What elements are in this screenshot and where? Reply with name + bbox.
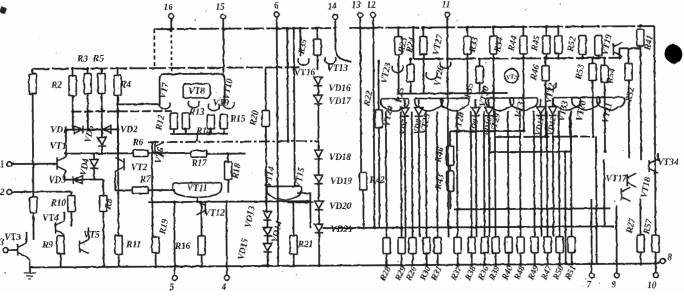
diode VD11 bbox=[537, 107, 545, 116]
wire VT3 emitter bbox=[27, 257, 30, 260]
resistor R26 bbox=[409, 238, 416, 254]
wire R46 R43 join bbox=[449, 165, 451, 171]
wire pin2 lead bbox=[12, 191, 72, 193]
wire R23 stub bbox=[397, 28, 399, 37]
resistor R27 bbox=[637, 235, 644, 252]
junction y228 x363 bbox=[362, 226, 365, 229]
resistor R45 bbox=[543, 36, 550, 54]
junction rail B x361 bbox=[359, 26, 362, 29]
junction VD row x102 bbox=[100, 128, 103, 131]
resistor VT19 res bbox=[595, 35, 602, 55]
wire R28 gnd bbox=[386, 254, 388, 265]
wire x620 seg bbox=[618, 48, 620, 57]
svg-text:R16: R16 bbox=[174, 241, 191, 251]
svg-text:R17: R17 bbox=[190, 158, 207, 168]
wire y202 seg bbox=[287, 201, 313, 203]
wire R1 top stub bbox=[32, 69, 34, 74]
wire R39 gnd bbox=[495, 253, 497, 264]
resistor R57 bbox=[652, 235, 659, 252]
transistor VT17 bbox=[627, 173, 636, 187]
junction gnd x293 bbox=[292, 264, 295, 267]
wire R10 stub bbox=[70, 192, 72, 196]
wire pin11 column bbox=[447, 17, 448, 238]
junction gnd x412 bbox=[411, 264, 414, 267]
svg-text:13: 13 bbox=[352, 0, 362, 10]
wire R33 drop bbox=[466, 54, 468, 93]
wire VD3row ext bbox=[94, 178, 103, 180]
junction rail C x118 bbox=[116, 67, 119, 70]
wire column R51 bbox=[570, 111, 573, 237]
resistor R31 bbox=[434, 237, 441, 253]
wire pin9 column bbox=[615, 205, 617, 273]
junction gnd x471 bbox=[470, 263, 473, 266]
junction rail y59 x605 bbox=[603, 56, 606, 59]
diode VD1 bbox=[74, 126, 83, 134]
wire line y210 bbox=[454, 207, 610, 210]
transistor VT30 bbox=[483, 87, 494, 94]
svg-text:VD16: VD16 bbox=[329, 83, 351, 93]
svg-text:R7: R7 bbox=[139, 174, 151, 184]
wire VD chain gaps bbox=[266, 220, 268, 227]
svg-text:5: 5 bbox=[170, 282, 175, 292]
junction y210 x534 bbox=[533, 207, 536, 210]
junction gnd x571 bbox=[570, 263, 573, 266]
svg-text:R11: R11 bbox=[125, 239, 141, 249]
junction rail y59 x547 bbox=[545, 57, 548, 60]
resistor R29 bbox=[398, 238, 405, 254]
junction gnd x484 bbox=[483, 263, 486, 266]
wire R11 bottom bbox=[118, 254, 120, 266]
junction y141 288 bbox=[286, 140, 289, 143]
transistor VT8 bbox=[188, 101, 199, 108]
junction y201 pin5 bbox=[173, 201, 176, 204]
junction gnd x201 bbox=[200, 265, 203, 268]
junction rail C x102 bbox=[100, 67, 103, 70]
junction rail y59 x448 bbox=[446, 57, 449, 60]
junction rail y59 x583 bbox=[581, 57, 584, 60]
wire R12 low bbox=[173, 129, 175, 134]
resistor R17 bbox=[191, 151, 207, 157]
svg-text:VT8: VT8 bbox=[188, 86, 205, 96]
wire column R39 bbox=[494, 111, 497, 237]
pin 12 bbox=[371, 12, 376, 17]
wire R26 gnd bbox=[412, 254, 414, 265]
wire VD4 bottom bbox=[93, 168, 95, 179]
wire mirror bottoms bbox=[170, 133, 228, 135]
wire column R48 bbox=[519, 111, 522, 237]
junction rail B x374 bbox=[372, 26, 375, 29]
transistor VT10 bbox=[223, 102, 234, 109]
transistor VT2 bbox=[115, 157, 124, 171]
resistor R53 bbox=[589, 63, 596, 80]
svg-text:VT17: VT17 bbox=[606, 173, 627, 183]
pin 5 bbox=[172, 276, 177, 281]
wire column R50 bbox=[558, 111, 561, 237]
diode VD8 bbox=[415, 108, 423, 117]
wire R34 drop bbox=[492, 54, 494, 117]
junction gnd x534 bbox=[533, 263, 536, 266]
svg-text:R21: R21 bbox=[297, 239, 313, 249]
transistor VT9 bbox=[208, 104, 219, 111]
wire R46a top bbox=[449, 131, 451, 146]
svg-text:2: 2 bbox=[0, 187, 5, 197]
resistor R54 bbox=[601, 65, 608, 82]
wire R35b bottom bbox=[479, 83, 481, 93]
svg-text:R13: R13 bbox=[188, 107, 205, 117]
svg-text:VT5: VT5 bbox=[83, 229, 100, 239]
wire R48 gnd bbox=[520, 253, 522, 264]
wire column x294 bbox=[293, 28, 296, 186]
junction gnd x508 bbox=[507, 263, 510, 266]
resistor R28 bbox=[383, 238, 390, 254]
wire mirror box bbox=[160, 74, 225, 105]
svg-text:11: 11 bbox=[442, 0, 451, 9]
wire right bus bbox=[654, 26, 655, 235]
svg-text:15: 15 bbox=[216, 2, 226, 12]
wire R44 drop bbox=[522, 54, 524, 131]
wire R45 stub bbox=[545, 27, 547, 36]
junction rail y59 x599 bbox=[597, 56, 600, 59]
junction rail A x172 bbox=[170, 28, 173, 31]
wire R2 top stub bbox=[72, 69, 74, 76]
svg-text:R5: R5 bbox=[92, 53, 104, 63]
wire R20 bottom bbox=[265, 126, 268, 211]
wire R24 drop bbox=[422, 55, 424, 94]
wire R49 gnd bbox=[534, 253, 536, 264]
resistor R10 bbox=[68, 196, 75, 212]
resistor R48 bbox=[517, 237, 524, 253]
resistor R34 bbox=[490, 36, 497, 54]
diode VD12 bbox=[549, 107, 557, 116]
transistor VT33 bbox=[553, 98, 581, 111]
wire node VD3 row bbox=[64, 179, 94, 181]
junction y228 x520 bbox=[519, 225, 522, 228]
wire node y201 bbox=[148, 200, 310, 203]
wire pin12 column bbox=[373, 17, 374, 228]
resistor R35a bbox=[314, 39, 321, 55]
wire y132 link bbox=[450, 130, 524, 132]
svg-text:VD19: VD19 bbox=[330, 176, 352, 186]
wire R9 bottom bbox=[60, 254, 62, 267]
svg-text:16: 16 bbox=[164, 2, 174, 12]
diode VD17 bbox=[314, 95, 322, 104]
junction R4-y103 bbox=[116, 103, 119, 106]
wire column R28 bbox=[385, 112, 388, 238]
resistor R25 bbox=[407, 65, 414, 82]
svg-text:12: 12 bbox=[367, 0, 377, 10]
svg-text:R2: R2 bbox=[50, 80, 62, 90]
wire x414 drop bbox=[412, 28, 414, 59]
junction gnd x318.5 bbox=[318, 264, 321, 267]
resistor R11 bbox=[115, 235, 122, 254]
junction R45 bbox=[545, 25, 548, 28]
wire R29 gnd bbox=[401, 254, 403, 265]
wire mirror to y141 bbox=[196, 134, 198, 142]
wire R18 top bbox=[227, 154, 229, 162]
junction y110b bbox=[116, 110, 119, 113]
wire column x288 bbox=[286, 28, 289, 141]
wire pin10 stub bbox=[655, 252, 657, 273]
junction rail C x88 bbox=[86, 67, 89, 70]
resistor R19 bbox=[152, 237, 159, 253]
wire VT3 collector bbox=[26, 232, 28, 243]
wire pin6 column bbox=[277, 17, 279, 266]
wire pin1 lead bbox=[11, 163, 57, 165]
wire line y228 bbox=[323, 226, 615, 228]
pin 4 bbox=[224, 275, 229, 280]
wire R53 bottom bbox=[592, 80, 594, 136]
transistor VT22 bbox=[545, 83, 556, 90]
junction gnd x386 bbox=[385, 264, 388, 267]
wire column R49 bbox=[533, 111, 536, 237]
resistor R24 bbox=[420, 36, 427, 54]
wire VD4 stem bbox=[93, 154, 95, 160]
junction pin11 rail bbox=[446, 26, 449, 29]
svg-text:VT16: VT16 bbox=[294, 67, 315, 77]
svg-text:VT2: VT2 bbox=[131, 162, 148, 172]
resistor R30 bbox=[423, 237, 430, 253]
wire R34 stub bbox=[492, 27, 494, 36]
junction rail C x73 bbox=[71, 67, 74, 70]
resistor R43 bbox=[447, 171, 454, 191]
resistor R39 bbox=[492, 237, 499, 253]
wire VD7 stem bbox=[404, 100, 406, 108]
transistor VT16 bbox=[298, 58, 309, 65]
wire y152 left bbox=[64, 152, 133, 154]
junction y201 R16 bbox=[200, 200, 203, 203]
wire R2 bottom bbox=[72, 96, 74, 130]
diode VD19 bbox=[314, 175, 322, 184]
wire VD8 drop bbox=[418, 117, 421, 238]
diode VD16 bbox=[314, 77, 322, 86]
wire column R30 bbox=[425, 111, 428, 237]
wire VT15 step bbox=[297, 193, 310, 228]
junction y153 a bbox=[564, 150, 567, 153]
junction y132 bbox=[522, 129, 525, 132]
resistor R16 bbox=[198, 236, 205, 255]
junction y210 x565 bbox=[564, 207, 567, 210]
svg-text:VT34: VT34 bbox=[658, 157, 679, 167]
wire R41 col bbox=[639, 46, 642, 160]
resistor R35b bbox=[476, 66, 483, 83]
wire column R40 bbox=[507, 111, 510, 237]
wire pin4 column bbox=[225, 202, 227, 276]
wire VT1 emitter bbox=[64, 171, 66, 175]
resistor R42 bbox=[360, 173, 367, 190]
resistor R4 bbox=[114, 75, 121, 95]
wire R3 top stub bbox=[87, 69, 89, 74]
wire R8 bottom bbox=[102, 211, 104, 266]
transistor VT14 VT15 bbox=[267, 186, 302, 200]
resistor R18 bbox=[224, 162, 231, 180]
wire R46b bottom bbox=[545, 81, 547, 137]
wire R50 gnd bbox=[559, 253, 561, 264]
transistor VT24 bbox=[381, 99, 409, 112]
wire column R38 bbox=[470, 111, 473, 237]
resistor R7 bbox=[132, 187, 148, 193]
pin 10 bbox=[653, 273, 658, 278]
wire R47 gnd bbox=[547, 253, 549, 264]
resistor R36 bbox=[481, 237, 488, 253]
junction gnd x426 bbox=[425, 263, 428, 266]
resistor R1 bbox=[29, 74, 36, 94]
junction y210 x457 bbox=[456, 208, 459, 211]
transistor VT7 bbox=[159, 102, 170, 109]
junction gnd x267 bbox=[266, 264, 269, 267]
wire dashdot y141 bbox=[148, 141, 318, 142]
svg-text:VT11: VT11 bbox=[187, 183, 207, 193]
wire VD chain gap2 bbox=[267, 236, 269, 243]
transistor VT4 bbox=[55, 221, 64, 235]
junction rail A x277 bbox=[275, 27, 278, 30]
svg-text:6: 6 bbox=[274, 0, 279, 10]
svg-text:VT3: VT3 bbox=[4, 232, 21, 242]
svg-text:1: 1 bbox=[0, 159, 4, 169]
svg-text:7: 7 bbox=[587, 279, 592, 289]
wire chain a bbox=[317, 86, 319, 95]
junction VD5 bottom bbox=[101, 152, 104, 155]
transistor VT8 box bbox=[183, 84, 210, 98]
svg-text:9: 9 bbox=[612, 279, 617, 289]
junction rail y59 x620 bbox=[618, 56, 621, 59]
wire x604 col bbox=[603, 159, 605, 226]
wire VT1 collector bbox=[65, 130, 67, 157]
svg-text:14: 14 bbox=[328, 1, 338, 11]
transistor VT26 bbox=[426, 72, 437, 79]
wire pin15 stub bbox=[222, 19, 224, 74]
svg-text:VD18: VD18 bbox=[329, 152, 351, 162]
wire VD3 drop bbox=[63, 175, 65, 180]
wire R52 drop bbox=[581, 55, 583, 58]
resistor R50 bbox=[556, 237, 563, 253]
transistor VT13 bbox=[325, 57, 336, 64]
resistor R15 bbox=[220, 115, 227, 129]
wire R25 bottom bbox=[410, 82, 412, 94]
junction rail B x414 bbox=[412, 26, 415, 29]
wire R45b stub bbox=[557, 27, 559, 36]
resistor R45b bbox=[555, 36, 562, 54]
wire R51 gnd bbox=[571, 253, 573, 264]
transistor VT27 bbox=[440, 61, 451, 68]
wire R20 top bbox=[265, 67, 267, 110]
wire R5 top stub bbox=[101, 68, 103, 73]
wire R35b top bbox=[478, 59, 480, 66]
diode VD18 bbox=[314, 150, 322, 159]
resistor R38 bbox=[468, 237, 475, 253]
wire column R31 bbox=[436, 111, 439, 237]
resistor R2 bbox=[69, 76, 76, 96]
junction gnd x640 bbox=[639, 262, 642, 265]
junction rail A x301 bbox=[299, 27, 302, 30]
wire VT11 base lead bbox=[170, 189, 175, 191]
wire R10 bottom bbox=[70, 212, 72, 227]
transistor VT29 bbox=[486, 98, 514, 111]
junction gnd x155 bbox=[154, 265, 157, 268]
transistor VT12 bbox=[196, 201, 205, 215]
junction y228 x450 bbox=[449, 226, 452, 229]
wire VD7 drop bbox=[404, 117, 407, 238]
pin 3 bbox=[3, 248, 8, 253]
junction y110a bbox=[71, 110, 74, 113]
wire R13 low bbox=[185, 129, 187, 134]
wire R46b top bbox=[544, 58, 546, 65]
wire R14 low bbox=[210, 129, 212, 134]
pin 16 bbox=[169, 14, 174, 19]
junction rail y59 x468 bbox=[466, 57, 469, 60]
transistor VT6 bbox=[155, 142, 164, 156]
wire VD12 stem bbox=[552, 99, 554, 107]
wire base rail y94 bbox=[398, 92, 508, 95]
wire R45 drop bbox=[545, 54, 547, 58]
wire x565 col bbox=[564, 152, 567, 264]
wire top rail A bbox=[154, 28, 336, 29]
wire VT13 links bbox=[316, 55, 318, 70]
svg-text:VT4: VT4 bbox=[42, 213, 59, 223]
wire R5 bottom bbox=[101, 93, 103, 129]
pin 2 bbox=[7, 190, 12, 195]
pin 15 bbox=[221, 14, 226, 19]
wire rail y59 bbox=[413, 58, 621, 59]
diode VD13 bbox=[263, 211, 271, 220]
wire ground rail bbox=[30, 264, 657, 268]
wire R35a top bbox=[316, 28, 318, 39]
resistor R51 bbox=[568, 237, 575, 253]
junction R23 bbox=[397, 26, 400, 29]
junction rail y59 x593 bbox=[591, 56, 594, 59]
wire R53 top bbox=[591, 58, 593, 63]
wire R38 gnd bbox=[471, 253, 473, 264]
wire R45b drop bbox=[557, 54, 559, 58]
wire pin8 lead bbox=[657, 262, 661, 264]
corner speck bbox=[0, 6, 7, 14]
svg-text:R3: R3 bbox=[76, 54, 88, 64]
svg-text:R15: R15 bbox=[229, 114, 246, 124]
wire VD15 bottom bbox=[267, 252, 269, 265]
junction rail y59 x480 bbox=[478, 57, 481, 60]
transistor VT17b bbox=[621, 187, 630, 201]
svg-text:VT3: VT3 bbox=[506, 74, 518, 81]
diode VD15 bbox=[263, 243, 271, 252]
transistor VT5 bbox=[80, 240, 89, 254]
wire VT34 link bbox=[657, 153, 659, 161]
diode VD21 bbox=[315, 224, 323, 233]
wire pin16 column dashed bbox=[170, 29, 172, 74]
wire mid line y138 bbox=[495, 135, 590, 138]
junction R24 bbox=[422, 26, 425, 29]
wire pin3 lead bbox=[8, 249, 18, 251]
transistor VT25 bbox=[415, 98, 443, 111]
wire VD5 stem bbox=[101, 129, 103, 137]
junction rail y59 x524 bbox=[522, 57, 525, 60]
junction rail A x317 bbox=[315, 27, 318, 30]
svg-text:8: 8 bbox=[667, 252, 672, 262]
pin 8 bbox=[660, 259, 665, 264]
svg-text:VD2: VD2 bbox=[120, 124, 138, 134]
junction y210 x484 bbox=[483, 208, 486, 211]
wire R22 top bbox=[377, 60, 379, 110]
transistor VT21 bbox=[597, 97, 625, 110]
wire R18 bottom bbox=[227, 180, 229, 193]
junction y153 b bbox=[604, 150, 607, 153]
junction y201 pin4 bbox=[225, 200, 228, 203]
junction gnd x559 bbox=[558, 263, 561, 266]
wire y50 right bbox=[619, 47, 640, 49]
junction rail y59 x559 bbox=[557, 57, 560, 60]
wire R27 gnd bbox=[640, 252, 642, 263]
wire R8 top bbox=[102, 179, 104, 195]
wire column x33 bbox=[32, 94, 35, 197]
wire y152 mid bbox=[148, 152, 191, 154]
